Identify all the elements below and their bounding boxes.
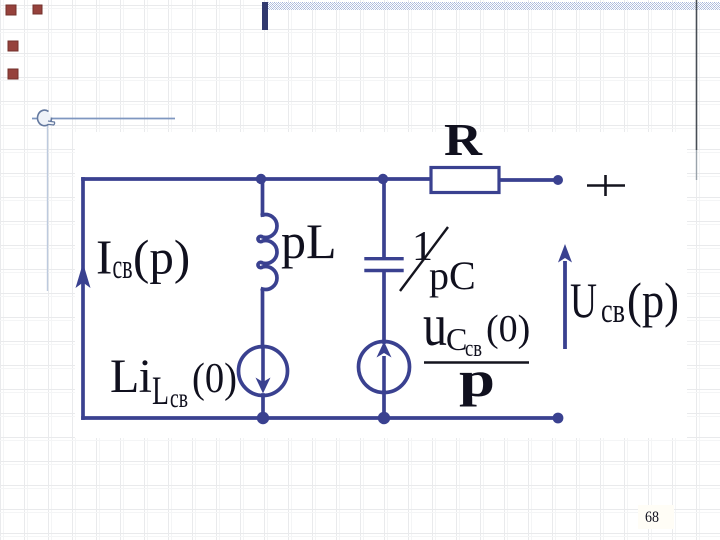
svg-text:(0): (0) bbox=[192, 355, 237, 402]
svg-text:(p): (p) bbox=[133, 230, 190, 285]
svg-text:Li: Li bbox=[110, 350, 152, 403]
arrow inside right current source (up) bbox=[382, 356, 386, 391]
page number 68 bbox=[638, 505, 674, 529]
svg-text:св: св bbox=[113, 247, 133, 286]
svg-text:I: I bbox=[96, 230, 112, 285]
white content panel bbox=[75, 132, 687, 438]
wire: source 2 to bottom bbox=[382, 392, 386, 418]
svg-text:R: R bbox=[444, 115, 483, 165]
node: bottom of capacitor branch bbox=[378, 412, 390, 424]
inductor pL bbox=[258, 215, 277, 290]
node: bottom right output terminal bbox=[553, 413, 564, 424]
svg-text:u: u bbox=[423, 292, 447, 358]
decor horizontal blue line bbox=[32, 118, 175, 120]
arrow inside left current source (down) bbox=[261, 348, 265, 382]
node: top of inductor branch bbox=[256, 174, 266, 184]
red square bullet 3 bbox=[8, 41, 18, 51]
wire: bottom bbox=[83, 416, 558, 420]
red square bullet 1 bbox=[6, 5, 16, 15]
svg-text:(p): (p) bbox=[627, 272, 679, 328]
svg-text:U: U bbox=[570, 272, 597, 328]
wire: top right segment after resistor bbox=[499, 178, 557, 182]
wire: inductor to source bbox=[261, 291, 265, 347]
U arrow right side (up) bbox=[563, 261, 567, 349]
navy bar top center bbox=[262, 2, 268, 30]
svg-text:св: св bbox=[601, 291, 625, 330]
wire: capacitor to source bbox=[382, 272, 386, 342]
wire: left vertical bbox=[81, 179, 85, 418]
svg-text:(0): (0) bbox=[486, 308, 530, 350]
decor compass glyph bbox=[38, 110, 55, 126]
node: top right output terminal bbox=[553, 175, 563, 185]
svg-text:св: св bbox=[170, 383, 188, 413]
node: top of capacitor branch bbox=[378, 174, 388, 184]
wire: source to bottom bbox=[261, 395, 265, 418]
decor vertical blue line bbox=[47, 111, 49, 291]
resistor R bbox=[431, 168, 499, 193]
red square bullet 4 bbox=[8, 69, 18, 79]
svg-text:L: L bbox=[152, 368, 169, 413]
current source LiL(0) circle bbox=[239, 347, 288, 396]
svg-text:68: 68 bbox=[645, 509, 659, 526]
current source uC(0)/p circle bbox=[359, 342, 410, 393]
arrowhead on left wire (Isv direction) bbox=[76, 263, 91, 288]
node: bottom of inductor branch bbox=[257, 412, 269, 424]
svg-text:pL: pL bbox=[281, 213, 337, 269]
red square bullet 2 bbox=[33, 5, 42, 14]
polarity plus sign bbox=[587, 184, 625, 187]
dark vertical rule right bbox=[696, 0, 698, 150]
capacitor 1/pC bbox=[366, 257, 402, 260]
wire: capacitor branch top bbox=[382, 179, 386, 257]
wire: top left segment bbox=[83, 177, 431, 181]
svg-text:p: p bbox=[459, 351, 495, 407]
top hatched band bbox=[264, 2, 720, 10]
wire: inductor branch top stub bbox=[261, 179, 265, 215]
